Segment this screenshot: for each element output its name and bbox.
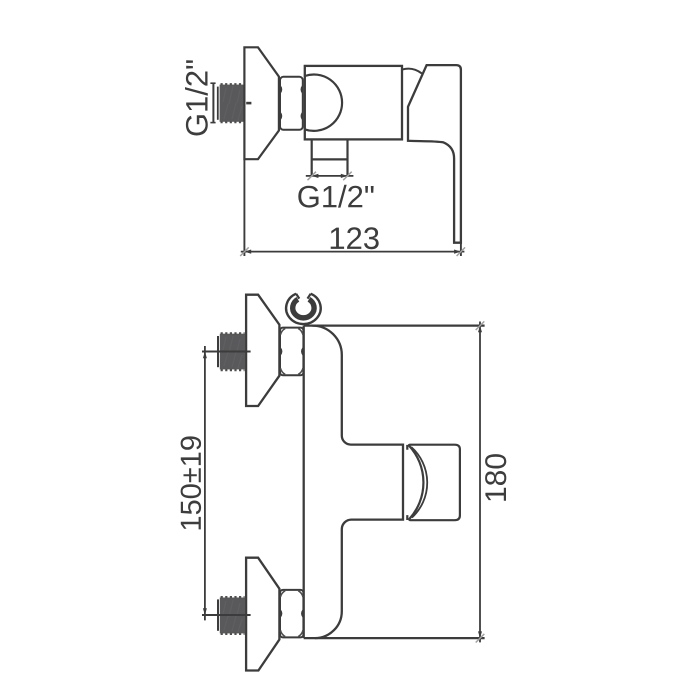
lower inlet thread block [220, 598, 245, 634]
wall inlet thread block (hatched) [220, 85, 246, 122]
mixer body (side view rectangle) [305, 66, 402, 139]
dome cap inside body [305, 74, 342, 130]
dimension line 123 [241, 251, 465, 253]
handle lever (side view) [408, 65, 461, 243]
extension line from escutcheon down to 123 dim [243, 159, 245, 256]
cartridge cap arc between body and lever [402, 69, 422, 74]
shower outlet below body [312, 139, 348, 176]
upper inlet centerline [202, 351, 251, 353]
outlet dimension line G1/2" [306, 175, 354, 177]
lower nut [280, 590, 303, 638]
dimension line 180 [479, 322, 481, 643]
lower inlet centerline [202, 614, 251, 616]
upper inlet thread flange [217, 336, 219, 367]
connection nut (side view) [280, 77, 303, 130]
wall inlet thread end-cap line [210, 83, 215, 122]
body left edge (wall side) [303, 326, 305, 638]
label 150±19 (rotated) [181, 436, 202, 529]
escutcheon (wall flange, side view) [244, 47, 279, 159]
extension line right (lever) [460, 243, 462, 256]
lower escutcheon [246, 558, 279, 671]
body right outline with handle boss [312, 326, 403, 638]
body bottom edge + 180 extension line [304, 637, 485, 639]
upper inlet thread block [220, 334, 245, 370]
upper escutcheon [246, 295, 279, 406]
label 180 (rotated) [485, 454, 506, 501]
wall inlet thread flange line [217, 87, 219, 120]
upper nut [280, 328, 303, 376]
dimension line 150±19 [204, 346, 206, 620]
label 123 [331, 227, 379, 249]
handle left edge stubs [406, 445, 408, 520]
shower-hose hook C ring [286, 294, 321, 324]
handle (front view) [409, 445, 460, 521]
thread centerline tick [246, 102, 251, 105]
label G1/2" (left, rotated) [185, 60, 208, 135]
body top edge + 180 extension line [304, 325, 485, 327]
label G1/2" (outlet) [298, 185, 373, 208]
handle cap lens inner arc [411, 447, 427, 518]
lower inlet thread flange [217, 599, 219, 630]
